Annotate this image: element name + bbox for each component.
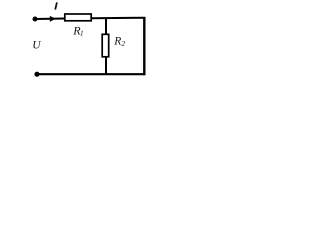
wire: R2 bottom lead to bottom rail junction — [105, 57, 107, 75]
current arrow I on top rail — [50, 16, 56, 22]
svg-text:R1: R1 — [72, 23, 83, 37]
resistor R1 — [65, 14, 91, 21]
node: top input terminal dot — [33, 17, 38, 22]
svg-text:R2: R2 — [113, 36, 125, 48]
wire: bottom rail, bottom-right corner to bottom dot — [37, 73, 145, 75]
wire: right rail — [143, 17, 145, 75]
label I (current) — [55, 2, 57, 9]
wire: top rail, dot to R1 left lead — [35, 18, 65, 21]
wire: top rail, R1 right lead to top-right corner — [92, 17, 146, 20]
resistor R2 — [102, 34, 109, 57]
svg-text:U: U — [32, 40, 41, 52]
node: bottom input terminal dot — [34, 72, 39, 77]
wire: R2 top lead from top rail junction — [105, 18, 107, 35]
